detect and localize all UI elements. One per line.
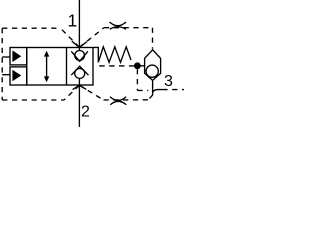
- wire dot to check valve: [137, 65, 144, 67]
- bottom poppet ball: [75, 68, 85, 78]
- pilot stub 2: [2, 74, 10, 76]
- node 2 junction wings: [73, 85, 80, 89]
- arrow head bottom: [44, 76, 49, 82]
- port 1 line: [78, 0, 80, 51]
- pilot line through bottom orifice: [104, 99, 150, 101]
- check valve ball: [146, 65, 158, 77]
- junction dot: [134, 62, 141, 69]
- orifice bottom arc upper: [110, 97, 126, 101]
- bottom poppet seat chevron: [71, 66, 88, 75]
- pilot box 2: [10, 67, 27, 85]
- check valve drain line: [152, 80, 154, 95]
- port 3 dashed line: [162, 89, 184, 91]
- node 1 junction wings: [72, 41, 80, 47]
- enclosure dashed left edge: [1, 28, 3, 100]
- spring seat bracket: [93, 47, 98, 62]
- valve body divider: [66, 48, 68, 86]
- pilot line diagonal top-left to node 1: [61, 28, 80, 47]
- pilot line dot down: [136, 69, 138, 90]
- check valve outline: [145, 50, 161, 81]
- pilot line body to junction dot: [99, 65, 134, 67]
- arrow head top: [44, 51, 49, 57]
- valve body main rect: [27, 48, 93, 86]
- pilot box 1: [10, 48, 27, 65]
- top poppet ball: [75, 51, 85, 61]
- top poppet seat chevron: [71, 51, 88, 61]
- svg-text:2: 2: [81, 104, 90, 121]
- drain elbow: [153, 90, 163, 93]
- pilot triangle 2: [12, 70, 21, 81]
- enclosure dashed top edge: [2, 27, 60, 29]
- pilot stub 1: [2, 56, 10, 58]
- pilot line diagonal node 1 to top orifice: [79, 28, 104, 48]
- orifice top arc upper: [110, 22, 127, 26]
- orifice bottom arc lower: [110, 101, 126, 105]
- enclosure dashed bottom edge: [2, 99, 64, 101]
- pilot dash diagonal to check valve foot: [150, 95, 153, 98]
- svg-text:3: 3: [164, 73, 173, 90]
- pilot line to check valve foot: [137, 89, 148, 91]
- svg-text:1: 1: [68, 11, 78, 31]
- orifice top arc lower: [110, 27, 126, 30]
- pilot triangle 1: [12, 50, 21, 62]
- pilot line diagonal node 2 to bottom orifice: [79, 85, 103, 100]
- pilot line down to check valve: [152, 28, 154, 49]
- port 2 line: [78, 78, 80, 127]
- middle position flow arrow shaft: [46, 55, 48, 78]
- pilot line diagonal node 2 to bottom-left: [64, 85, 79, 100]
- pilot line through top orifice to corner: [104, 27, 153, 29]
- spring: [98, 47, 131, 63]
